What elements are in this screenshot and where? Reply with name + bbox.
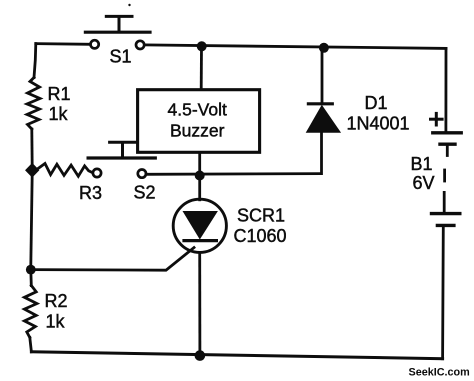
wire gate [31,248,194,271]
wire left rail bottom [30,338,32,352]
node junction S2/SCR anode [195,171,205,181]
wire left rail mid2 [31,174,32,266]
switch S2 [88,142,155,178]
resistor R3 [36,164,92,177]
svg-text:S1: S1 [110,47,132,67]
wire left rail mid1 [30,129,33,167]
wire top-left horizontal to S1 [36,42,91,46]
node junction SCR bottom [195,350,206,361]
wire buzzer top lead [200,46,203,89]
svg-text:R2: R2 [45,291,68,311]
svg-text:S2: S2 [134,183,156,203]
wire S2 to diode bottom [146,172,321,175]
wire buzzer bottom lead [198,153,201,200]
svg-text:B1: B1 [411,154,433,174]
svg-text:1k: 1k [46,312,66,332]
wire left rail to R2 [29,270,32,286]
diode D1 [306,104,341,133]
svg-text:R3: R3 [79,183,102,203]
svg-text:D1: D1 [365,93,388,113]
svg-text:SCR1: SCR1 [237,206,285,226]
svg-text:Buzzer: Buzzer [170,121,225,141]
node junction diode top [319,43,329,53]
resistor R1 [27,78,40,130]
svg-text:4.5-Volt: 4.5-Volt [168,100,227,120]
svg-text:6V: 6V [413,173,435,193]
diode D1 lead top [321,48,324,102]
node junction R1/R3 [26,164,38,177]
resistor R2 [24,286,37,338]
node junction buzzer top [197,41,207,51]
wire bottom rail [31,352,442,359]
svg-text:R1: R1 [48,84,71,104]
wire left rail upper [34,44,36,78]
label + [431,113,443,125]
wire right rail upper [444,48,447,131]
svg-text:C1060: C1060 [234,226,287,246]
switch S1 [85,4,150,49]
node junction R2/gate [26,265,36,275]
wire right rail lower [441,225,444,358]
SCR1 [173,199,226,252]
wire SCR cathode lead [198,252,201,355]
svg-text:1k: 1k [49,104,69,124]
buzzer box [138,90,260,153]
svg-text:1N4001: 1N4001 [347,114,410,134]
diode D1 lead bottom [320,133,323,174]
battery B1 [432,133,462,226]
wire top rail S1 to corner [144,45,446,49]
svg-text:SeekIC.com: SeekIC.com [409,367,470,379]
